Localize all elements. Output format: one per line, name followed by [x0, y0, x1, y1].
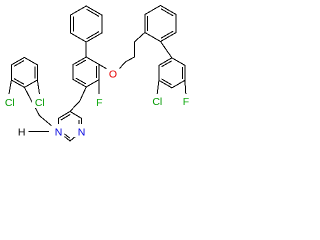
- svg-text:H: H: [18, 127, 26, 139]
- svg-text:N: N: [78, 127, 86, 139]
- wire Cl bond on ring L right: [37, 80, 39, 94]
- svg-text:Cl: Cl: [5, 97, 15, 109]
- wire Cl bond on ring L left: [9, 80, 11, 94]
- ring TL phenyl: [71, 6, 102, 42]
- wire CH2 kink bond: [126, 57, 135, 62]
- wire vertical chain bond: [134, 42, 136, 57]
- wire F bond on ring R: [184, 80, 187, 93]
- svg-text:Cl: Cl: [152, 96, 162, 108]
- wire chain to N1 bond: [40, 116, 59, 132]
- ring bottom diazine: [59, 112, 82, 142]
- wire ring C to O ether bond: [99, 65, 110, 71]
- wire chain bond ring L to CH2: [24, 87, 31, 101]
- ring L dichlorophenyl: [11, 57, 37, 87]
- svg-text:O: O: [109, 69, 117, 81]
- ring TR phenyl: [145, 6, 176, 42]
- wire CH2 to N-ring bond: [70, 101, 80, 112]
- svg-text:F: F: [183, 96, 189, 108]
- wire Cl bond on ring R: [157, 80, 159, 94]
- wire chain CH2 to CH2 bond: [32, 101, 40, 115]
- svg-text:F: F: [96, 97, 102, 109]
- svg-text:Cl: Cl: [35, 97, 45, 109]
- ring R chloro-fluoro-phenyl: [159, 58, 185, 88]
- wire ring C to CH2 bond: [80, 87, 86, 101]
- wire O to CH2 bond: [118, 62, 126, 71]
- label background boxes: [2, 67, 193, 138]
- ring C chlorophenyl-F: [73, 57, 99, 87]
- wire F bond on ring C: [98, 80, 100, 95]
- wire biphenyl bond TL ring to ring C: [85, 42, 87, 57]
- wire biphenyl bond TR ring to ring R: [161, 42, 172, 58]
- wire H to N1 bond: [29, 130, 50, 132]
- svg-text:N: N: [55, 127, 63, 139]
- wire chain to ring TR bond: [135, 33, 145, 42]
